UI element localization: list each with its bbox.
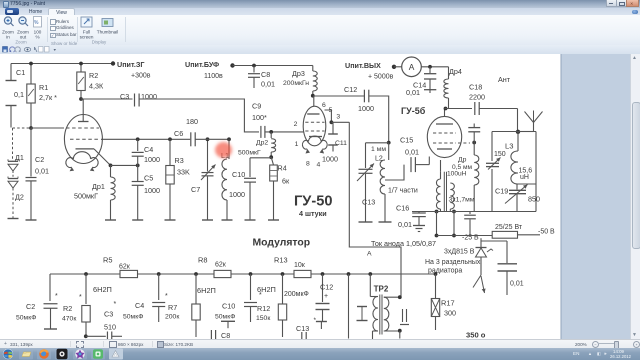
svg-text:6: 6 (322, 102, 326, 109)
svg-text:3: 3 (336, 113, 340, 120)
node long left drop (347, 272, 351, 338)
svg-text:C4: C4 (144, 145, 153, 154)
svg-text:%: % (34, 20, 39, 26)
diode Д2 (8, 171, 24, 219)
label 6Н2П c (257, 285, 276, 294)
resistor R8 (198, 256, 231, 278)
svg-text:50мкФ: 50мкФ (215, 314, 235, 321)
capacitor C16 (396, 204, 426, 230)
capacitor C13 mod (296, 317, 317, 339)
svg-text:470к: 470к (62, 316, 76, 323)
svg-text:C16: C16 (396, 204, 409, 213)
wire C18 to tank (480, 109, 518, 132)
node Uпит.ЗГ terminal (111, 60, 151, 80)
capacitor 0.01 bias (481, 241, 524, 295)
svg-text:Др3: Др3 (292, 69, 305, 78)
svg-text:C10: C10 (232, 170, 245, 179)
inductor Др3 (283, 66, 317, 98)
wire mod cathode rail (86, 332, 122, 341)
svg-text:*: * (114, 301, 117, 308)
svg-text:200к: 200к (165, 314, 179, 321)
svg-text:Thumbnail: Thumbnail (97, 30, 118, 35)
svg-text:R7: R7 (168, 303, 177, 312)
capacitor trimmer anode (468, 124, 480, 143)
label 1/7 части (388, 188, 418, 195)
resistor R bias 25/25Вт (492, 224, 523, 238)
svg-text:+ 5000в: + 5000в (368, 74, 394, 81)
svg-text:4 штуки: 4 штуки (299, 209, 327, 218)
svg-text:C1: C1 (16, 68, 25, 77)
svg-text:1000: 1000 (229, 190, 245, 199)
svg-text:R17: R17 (441, 299, 455, 308)
tube U1 heater (66, 152, 98, 172)
svg-text:1000: 1000 (141, 92, 157, 101)
svg-text:Д2: Д2 (15, 193, 24, 202)
node C11 junction (330, 120, 334, 124)
svg-text:100*: 100* (252, 113, 267, 122)
wire bias rail (437, 234, 541, 237)
svg-text:1/7 части: 1/7 части (388, 188, 418, 195)
svg-text:%: % (35, 35, 39, 40)
tube U2 pin 2 (294, 121, 298, 128)
capacitor small b (400, 309, 409, 325)
resistor R1 (27, 62, 57, 128)
svg-text:A: A (409, 62, 415, 72)
svg-text:Др2: Др2 (256, 139, 268, 146)
svg-text:C15: C15 (400, 136, 413, 145)
svg-text:0,01: 0,01 (35, 167, 49, 176)
node tr left bottom (435, 209, 441, 213)
svg-text:0,01: 0,01 (406, 88, 420, 97)
svg-text:1100в: 1100в (204, 73, 223, 80)
svg-text:1: 1 (295, 141, 299, 148)
inductor Др1 (74, 165, 116, 220)
svg-text:C6: C6 (174, 129, 183, 138)
svg-text:*: * (55, 293, 58, 300)
svg-text:Др1: Др1 (92, 182, 105, 191)
svg-text:R2: R2 (63, 304, 72, 313)
capacitor C19a variable 150 (486, 151, 506, 170)
svg-text:C10: C10 (222, 302, 235, 311)
label 200мкФ (284, 291, 309, 298)
tube U2 pin 8 (306, 161, 310, 168)
capacitor C14 (406, 67, 436, 97)
svg-text:C5: C5 (144, 174, 153, 183)
label radiators (425, 259, 481, 275)
capacitor T a (221, 321, 235, 328)
svg-text:C8: C8 (221, 331, 230, 339)
wire TP2 drop (368, 272, 372, 296)
node grid1 junction (29, 126, 33, 130)
svg-text:2,7к *: 2,7к * (39, 93, 57, 102)
label 350 (466, 331, 486, 340)
svg-text:510: 510 (104, 323, 116, 332)
capacitor C6 (174, 117, 198, 146)
inductor L2 (371, 143, 392, 222)
svg-text:На 3 раздельных: На 3 раздельных (425, 259, 481, 266)
node R3 drop (168, 137, 172, 141)
capacitor -25В bypass (462, 212, 479, 242)
svg-text:0,01: 0,01 (398, 220, 412, 229)
svg-text:R4: R4 (278, 164, 287, 173)
svg-text:62к: 62к (119, 264, 131, 271)
capacitor C8 (248, 66, 275, 89)
svg-text:3х1,7мм: 3х1,7мм (449, 197, 475, 204)
wire pin5 stub (325, 110, 332, 122)
svg-text:0,01: 0,01 (510, 281, 524, 288)
label C3 510 (104, 301, 117, 332)
capacitor C12 mod (316, 272, 334, 322)
tube U1 оscillator 6Н2П (64, 99, 102, 164)
svg-text:А: А (367, 251, 372, 258)
vertical scrollbar (630, 54, 640, 339)
resistor R2 (77, 62, 104, 99)
wire Uпит.ВЫХ (345, 61, 402, 81)
resistor R17 lamp (431, 274, 456, 330)
svg-text:4: 4 (317, 162, 321, 169)
node tr right bottom (450, 209, 456, 213)
capacitor C2 (26, 128, 50, 220)
capacitor C10 mod (215, 274, 262, 322)
wire C3 to buffer (139, 99, 259, 132)
svg-text:Zoom: Zoom (15, 40, 27, 45)
wire long drop to TP2 (349, 122, 401, 297)
svg-text:180: 180 (186, 117, 198, 126)
capacitor C2 mod (16, 274, 58, 329)
wire anode rail (445, 108, 473, 110)
wire screen rail (101, 138, 190, 140)
QAT row icons (0, 45, 640, 55)
svg-text:+300в: +300в (131, 73, 151, 80)
svg-text:Ток анода 1,05/0,87: Ток анода 1,05/0,87 (371, 239, 436, 248)
svg-text:Uпит.ЗГ: Uпит.ЗГ (117, 60, 144, 69)
capacitor C11 (322, 122, 347, 163)
svg-text:500мкГ: 500мкГ (74, 192, 98, 201)
tube U2 heater arrows (302, 136, 327, 154)
svg-text:33K: 33K (177, 168, 190, 177)
capacitor C19b variable 850 (495, 184, 540, 212)
capacitor C18 (469, 83, 485, 116)
svg-text:6к: 6к (282, 177, 290, 186)
inductor L3 (505, 132, 536, 185)
wire screen rail b (195, 138, 229, 140)
label 6Н2П b (197, 286, 216, 295)
inductor Др2 (238, 130, 276, 159)
svg-text:C12: C12 (344, 85, 357, 94)
svg-text:*: * (259, 292, 262, 299)
svg-text:1000: 1000 (322, 155, 338, 164)
Display group (78, 15, 138, 45)
svg-text:150: 150 (494, 151, 506, 158)
inductor Др choke (447, 143, 479, 212)
svg-text:+: + (324, 293, 328, 300)
inductor Др4 (444, 67, 462, 109)
diode Д815 zener stack (444, 238, 493, 257)
svg-text:1000: 1000 (358, 104, 374, 113)
svg-text:R8: R8 (198, 256, 207, 265)
tube U3 PA ГУ-50 (427, 109, 461, 158)
resistor R7 (165, 272, 200, 337)
svg-text:R2: R2 (89, 71, 98, 80)
capacitor C15 (400, 136, 429, 173)
wire top rail Uпит.ЗГ (11, 63, 113, 65)
wire C12 to L2 (369, 96, 389, 143)
wire C9 to grid (265, 131, 304, 133)
wire grid2 dash right (458, 141, 476, 145)
wire cathode diag (94, 149, 111, 166)
wire tr drops (435, 212, 456, 238)
svg-text:Др: Др (458, 157, 467, 164)
svg-text:C2: C2 (35, 155, 44, 164)
resistor R13 (274, 256, 311, 278)
svg-text:C7: C7 (191, 185, 200, 194)
svg-text:0,01: 0,01 (405, 148, 419, 157)
wire anode1 rail (81, 98, 133, 100)
node C8 drop (252, 64, 256, 68)
svg-text:200мкФ: 200мкФ (284, 291, 309, 298)
svg-text:Display: Display (92, 40, 107, 45)
svg-text:Uпит.ВЫХ: Uпит.ВЫХ (345, 61, 381, 70)
svg-text:R5: R5 (103, 256, 112, 265)
capacitor T b (316, 322, 327, 330)
node C4 drop (136, 137, 140, 141)
capacitor C13 variable (357, 143, 375, 222)
meter A ammeter (402, 57, 422, 77)
label Ант (498, 75, 511, 84)
capacitor C12 coupling (344, 85, 374, 113)
label Ток анода (371, 239, 436, 248)
svg-text:*: * (165, 293, 168, 300)
wire Др2 to C10 (250, 157, 271, 159)
svg-text:6Н2П: 6Н2П (197, 286, 216, 295)
capacitor C3 (120, 92, 157, 107)
diode Д1 (8, 128, 24, 171)
wire mod bus (50, 273, 436, 275)
svg-text:C3: C3 (104, 310, 113, 319)
svg-text:0,01: 0,01 (261, 80, 275, 89)
pointer highlight (215, 142, 232, 158)
svg-text:R3: R3 (175, 156, 184, 165)
svg-text:0,1: 0,1 (14, 90, 24, 99)
capacitor C1 (6, 64, 26, 128)
node C4 mod drop (157, 272, 161, 276)
svg-text:100uH: 100uH (447, 171, 467, 178)
svg-text:Uпит.БУФ: Uпит.БУФ (185, 60, 219, 69)
resistor R12 (256, 272, 287, 337)
tube U2 pin 3 (336, 113, 340, 120)
svg-text:Модулятор: Модулятор (253, 238, 311, 249)
resistor R3 (165, 139, 190, 220)
label ГУ-50 (294, 194, 332, 210)
svg-text:C19: C19 (495, 187, 508, 196)
node C10 mod drop (249, 272, 253, 276)
tube U2 pin 5 (329, 107, 333, 114)
tank box (492, 132, 536, 212)
taskbar (0, 348, 640, 360)
svg-text:300: 300 (444, 309, 456, 318)
label node А (367, 251, 372, 258)
svg-text:R1: R1 (39, 83, 48, 92)
node anode1 junction (79, 97, 83, 101)
resistor R4 (268, 157, 290, 220)
inductor L1 (221, 139, 233, 220)
svg-text:Др4: Др4 (449, 67, 462, 76)
svg-text:8: 8 (306, 161, 310, 168)
svg-text:uH: uH (520, 174, 529, 181)
label ГУ-5б (401, 106, 426, 116)
svg-text:25/25 Вт: 25/25 Вт (495, 224, 523, 231)
svg-text:C4: C4 (135, 301, 144, 310)
svg-text:-50 В: -50 В (538, 229, 555, 236)
svg-text:500мкГ: 500мкГ (238, 150, 261, 157)
svg-text:50мкФ: 50мкФ (123, 314, 143, 321)
svg-text:ГУ-5б: ГУ-5б (401, 106, 426, 116)
svg-text:C12: C12 (320, 283, 333, 292)
svg-text:C8: C8 (261, 70, 270, 79)
svg-text:in: in (6, 35, 10, 40)
svg-text:200мкГн: 200мкГн (283, 80, 309, 87)
capacitor C7 variable (191, 137, 216, 220)
svg-text:C13: C13 (362, 198, 375, 207)
node cathode junction (109, 164, 140, 168)
label 6Н2П a (93, 285, 112, 294)
wire Uпит.БУФ rail (185, 60, 312, 80)
svg-text:ГУ-50: ГУ-50 (294, 194, 332, 210)
svg-text:C9: C9 (252, 102, 261, 111)
svg-text:Ант: Ант (498, 75, 511, 84)
svg-text:150к: 150к (256, 315, 270, 322)
wire to C13 (366, 142, 389, 144)
Show or hide group (50, 19, 56, 25)
transformer ТР2 (370, 285, 401, 340)
svg-text:C13: C13 (296, 324, 309, 333)
svg-text:850: 850 (528, 195, 540, 204)
svg-text:C3: C3 (120, 92, 129, 101)
tube U2 buffer (303, 96, 326, 146)
switch ТВ (473, 257, 486, 293)
node R17 drop (434, 272, 438, 276)
svg-text:10к: 10к (294, 262, 306, 269)
capacitor C8 mod (211, 330, 230, 340)
svg-text:6Н2П: 6Н2П (93, 285, 112, 294)
svg-text:R12: R12 (257, 304, 270, 313)
svg-text:4,3К: 4,3К (89, 82, 104, 91)
svg-text:Д1: Д1 (15, 153, 24, 162)
tube U2 pin 4 (317, 162, 321, 169)
svg-text:62к: 62к (215, 262, 227, 269)
capacitor C4 chain (132, 139, 160, 165)
node L1 junction (227, 137, 231, 141)
svg-text:L3: L3 (505, 142, 513, 151)
wire meter to Др4 (421, 65, 448, 69)
ground C16 (413, 226, 425, 232)
wire grid1 (13, 127, 65, 129)
svg-text:*: * (79, 294, 82, 301)
label Модулятор (253, 238, 311, 249)
svg-text:C2: C2 (26, 302, 35, 311)
node L2 top junction (387, 141, 391, 145)
svg-text:2200: 2200 (469, 93, 485, 102)
wire grid2 to right (331, 121, 349, 123)
tube U2 pin 1 (295, 141, 299, 148)
resistor R5 (103, 256, 138, 278)
capacitor C10 (229, 158, 256, 220)
capacitor C4 mod (123, 274, 168, 322)
svg-text:C11: C11 (335, 140, 347, 147)
svg-text:50мкФ: 50мкФ (16, 315, 36, 322)
label 4 штуки (299, 209, 327, 218)
resistor R2 mod (55, 272, 90, 338)
capacitor small a (357, 307, 368, 321)
svg-text:2: 2 (294, 121, 298, 128)
capacitor C9 (252, 102, 267, 138)
label -50 В (538, 229, 555, 236)
svg-text:1000: 1000 (144, 155, 160, 164)
svg-text:1000: 1000 (144, 186, 160, 195)
ribbon: Zoom group (0, 15, 130, 45)
tube U2 pin 6 (322, 102, 326, 109)
status bar (0, 339, 640, 349)
svg-text:350 о: 350 о (466, 331, 486, 340)
svg-text:ТР2: ТР2 (374, 285, 389, 294)
antenna (516, 111, 543, 135)
transformer Тр1 filament (436, 160, 474, 211)
node PA anode (444, 107, 448, 111)
capacitor C5 (132, 165, 160, 220)
wire L2 tap (385, 165, 404, 180)
wire rail 211 (412, 211, 536, 213)
svg-text:C18: C18 (469, 83, 482, 92)
svg-text:3хД815 В: 3хД815 В (444, 249, 475, 256)
wire anode2 rail (313, 95, 365, 97)
svg-text:1 мм: 1 мм (371, 146, 386, 153)
svg-text:R13: R13 (274, 256, 288, 265)
